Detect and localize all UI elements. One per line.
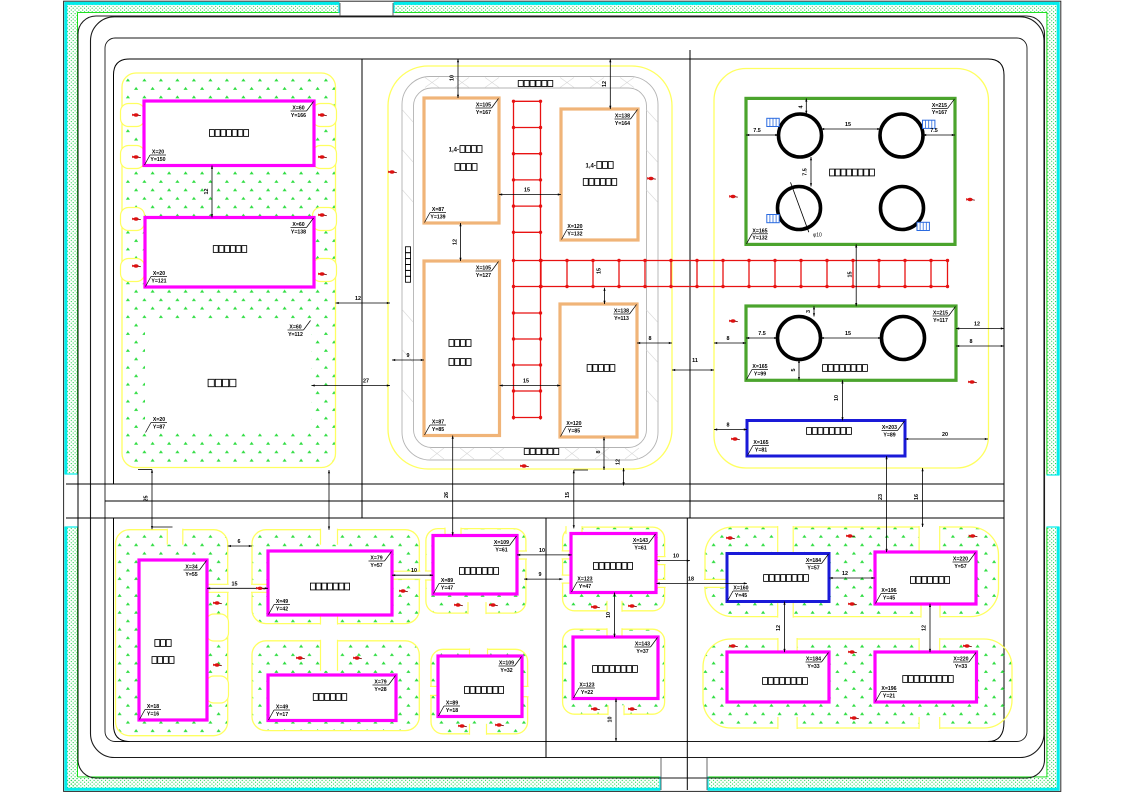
svg-text:X=184: X=184 bbox=[806, 657, 821, 663]
svg-text:15: 15 bbox=[848, 272, 854, 278]
svg-text:X=196: X=196 bbox=[881, 686, 896, 692]
svg-text:Y=47: Y=47 bbox=[441, 585, 453, 591]
svg-text:10: 10 bbox=[673, 554, 679, 560]
svg-text:23: 23 bbox=[878, 494, 884, 500]
svg-text:X=20: X=20 bbox=[152, 150, 164, 156]
svg-text:Y=57: Y=57 bbox=[370, 563, 382, 569]
svg-text:12: 12 bbox=[974, 322, 980, 328]
svg-text:Y=150: Y=150 bbox=[150, 157, 165, 163]
svg-text:4: 4 bbox=[799, 106, 805, 109]
svg-text:10: 10 bbox=[450, 75, 456, 81]
svg-text:Y=42: Y=42 bbox=[276, 606, 288, 612]
svg-text:18: 18 bbox=[688, 576, 694, 582]
svg-text:Y=139: Y=139 bbox=[430, 214, 445, 220]
svg-text:Y=87: Y=87 bbox=[153, 424, 165, 430]
svg-text:Y=99: Y=99 bbox=[754, 371, 766, 377]
svg-text:Y=32: Y=32 bbox=[500, 668, 512, 674]
svg-text:12: 12 bbox=[602, 81, 608, 87]
svg-text:X=34: X=34 bbox=[185, 565, 197, 571]
svg-text:15: 15 bbox=[523, 379, 529, 385]
svg-text:Y=89: Y=89 bbox=[883, 432, 895, 438]
svg-text:X=60: X=60 bbox=[292, 106, 304, 112]
svg-text:X=220: X=220 bbox=[953, 557, 968, 563]
svg-text:12: 12 bbox=[616, 459, 622, 465]
svg-text:12: 12 bbox=[355, 296, 361, 302]
svg-text:X=184: X=184 bbox=[806, 558, 821, 564]
svg-text:Y=85: Y=85 bbox=[568, 428, 580, 434]
svg-text:8: 8 bbox=[727, 336, 730, 342]
svg-text:Y=21: Y=21 bbox=[883, 693, 895, 699]
svg-text:X=87: X=87 bbox=[432, 207, 444, 213]
svg-text:15: 15 bbox=[524, 188, 530, 194]
svg-text:X=120: X=120 bbox=[566, 421, 581, 427]
svg-text:Y=18: Y=18 bbox=[446, 708, 458, 714]
svg-text:X=18: X=18 bbox=[147, 704, 159, 710]
svg-text:X=123: X=123 bbox=[577, 577, 592, 583]
svg-text:Y=57: Y=57 bbox=[954, 564, 966, 570]
svg-text:16: 16 bbox=[914, 494, 920, 500]
svg-text:Y=33: Y=33 bbox=[955, 664, 967, 670]
svg-text:Y=167: Y=167 bbox=[932, 110, 947, 116]
svg-text:Y=138: Y=138 bbox=[291, 229, 306, 235]
svg-text:10: 10 bbox=[606, 612, 612, 618]
svg-text:X=215: X=215 bbox=[933, 311, 948, 317]
svg-text:X=120: X=120 bbox=[567, 224, 582, 230]
svg-text:8: 8 bbox=[727, 423, 730, 429]
svg-text:Y=85: Y=85 bbox=[432, 427, 444, 433]
svg-text:X=89: X=89 bbox=[441, 578, 453, 584]
svg-text:8: 8 bbox=[970, 339, 973, 345]
svg-text:Y=57: Y=57 bbox=[807, 565, 819, 571]
svg-text:Y=117: Y=117 bbox=[933, 318, 948, 324]
svg-text:12: 12 bbox=[453, 239, 459, 245]
svg-text:X=105: X=105 bbox=[476, 266, 491, 272]
svg-text:X=138: X=138 bbox=[615, 114, 630, 120]
svg-text:X=165: X=165 bbox=[753, 440, 768, 446]
svg-text:10: 10 bbox=[411, 568, 417, 574]
svg-text:X=109: X=109 bbox=[499, 661, 514, 667]
svg-text:X=143: X=143 bbox=[635, 642, 650, 648]
svg-text:12: 12 bbox=[776, 625, 782, 631]
svg-text:X=203: X=203 bbox=[882, 425, 897, 431]
svg-text:Y=113: Y=113 bbox=[614, 316, 629, 322]
svg-text:X=165: X=165 bbox=[752, 364, 767, 370]
svg-text:X=160: X=160 bbox=[733, 586, 748, 592]
svg-text:15: 15 bbox=[845, 331, 851, 337]
svg-text:6: 6 bbox=[238, 539, 241, 545]
svg-text:8: 8 bbox=[649, 336, 652, 342]
svg-text:Y=22: Y=22 bbox=[581, 690, 593, 696]
svg-text:1,4-: 1,4- bbox=[586, 164, 596, 170]
svg-text:Y=132: Y=132 bbox=[752, 236, 767, 242]
svg-text:X=49: X=49 bbox=[276, 705, 288, 711]
svg-text:Y=166: Y=166 bbox=[291, 113, 306, 119]
svg-text:Y=167: Y=167 bbox=[476, 110, 491, 116]
svg-text:20: 20 bbox=[942, 432, 948, 438]
svg-text:X=105: X=105 bbox=[476, 103, 491, 109]
svg-text:7.5: 7.5 bbox=[803, 168, 809, 176]
svg-text:X=20: X=20 bbox=[153, 417, 165, 423]
svg-text:X=49: X=49 bbox=[276, 599, 288, 605]
svg-text:Y=37: Y=37 bbox=[636, 649, 648, 655]
svg-text:9: 9 bbox=[539, 572, 542, 578]
svg-text:3: 3 bbox=[806, 310, 812, 313]
svg-text:15: 15 bbox=[232, 581, 238, 587]
svg-text:X=220: X=220 bbox=[953, 657, 968, 663]
svg-text:Y=45: Y=45 bbox=[883, 595, 895, 601]
svg-text:12: 12 bbox=[842, 571, 848, 577]
svg-text:X=79: X=79 bbox=[370, 556, 382, 562]
svg-text:10: 10 bbox=[539, 548, 545, 554]
svg-text:27: 27 bbox=[363, 379, 369, 385]
svg-text:Y=16: Y=16 bbox=[147, 711, 159, 717]
svg-text:X=215: X=215 bbox=[932, 103, 947, 109]
svg-text:X=123: X=123 bbox=[579, 683, 594, 689]
svg-text:9: 9 bbox=[407, 353, 410, 359]
svg-text:X=20: X=20 bbox=[153, 271, 165, 277]
svg-text:X=89: X=89 bbox=[446, 701, 458, 707]
svg-text:Y=132: Y=132 bbox=[567, 231, 582, 237]
svg-text:10: 10 bbox=[834, 395, 840, 401]
svg-text:Y=121: Y=121 bbox=[151, 278, 166, 284]
svg-text:Y=112: Y=112 bbox=[288, 332, 303, 338]
svg-text:15: 15 bbox=[597, 268, 603, 274]
svg-text:X=109: X=109 bbox=[494, 540, 509, 546]
svg-text:X=79: X=79 bbox=[374, 680, 386, 686]
svg-text:Y=28: Y=28 bbox=[374, 687, 386, 693]
svg-text:1,4-: 1,4- bbox=[449, 148, 459, 154]
svg-text:Y=61: Y=61 bbox=[495, 547, 507, 553]
svg-text:X=87: X=87 bbox=[432, 420, 444, 426]
svg-text:5: 5 bbox=[791, 369, 797, 372]
svg-text:X=60: X=60 bbox=[292, 222, 304, 228]
svg-text:15: 15 bbox=[565, 492, 571, 498]
svg-text:X=196: X=196 bbox=[881, 588, 896, 594]
svg-text:φ10: φ10 bbox=[813, 233, 822, 239]
svg-text:12: 12 bbox=[204, 189, 210, 195]
svg-text:Y=61: Y=61 bbox=[634, 545, 646, 551]
svg-text:11: 11 bbox=[692, 358, 698, 364]
svg-text:Y=81: Y=81 bbox=[755, 447, 767, 453]
svg-text:15: 15 bbox=[845, 122, 851, 128]
svg-text:Y=164: Y=164 bbox=[615, 121, 630, 127]
svg-text:Y=17: Y=17 bbox=[276, 712, 288, 718]
svg-text:7.5: 7.5 bbox=[930, 128, 938, 134]
svg-text:Y=55: Y=55 bbox=[185, 572, 197, 578]
svg-text:Y=33: Y=33 bbox=[807, 664, 819, 670]
svg-text:26: 26 bbox=[444, 492, 450, 498]
svg-text:7.5: 7.5 bbox=[753, 128, 761, 134]
svg-text:Y=45: Y=45 bbox=[735, 593, 747, 599]
svg-text:8: 8 bbox=[596, 451, 602, 454]
svg-text:25: 25 bbox=[144, 496, 150, 502]
svg-text:Y=47: Y=47 bbox=[579, 584, 591, 590]
svg-text:7.5: 7.5 bbox=[758, 331, 766, 337]
svg-text:10: 10 bbox=[608, 717, 614, 723]
svg-text:12: 12 bbox=[922, 625, 928, 631]
svg-text:X=138: X=138 bbox=[614, 309, 629, 315]
svg-text:X=143: X=143 bbox=[633, 538, 648, 544]
svg-text:X=165: X=165 bbox=[752, 228, 767, 234]
svg-text:X=60: X=60 bbox=[289, 325, 301, 331]
svg-text:Y=127: Y=127 bbox=[476, 273, 491, 279]
